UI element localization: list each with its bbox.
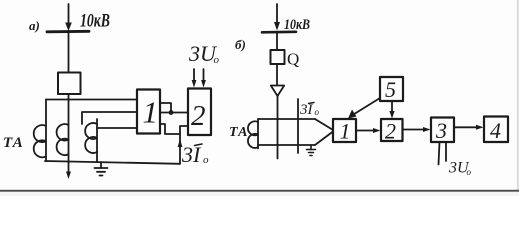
wire box1 to box2 a	[160, 112, 188, 114]
arrowhead feeder a	[65, 23, 72, 32]
svg-text:o: o	[203, 154, 209, 166]
svg-text:10кВ: 10кВ	[80, 11, 110, 32]
cone top edge to box1 b	[315, 119, 333, 130]
svg-text:Q: Q	[287, 50, 299, 69]
cone bottom edge to box1 b	[315, 132, 333, 146]
arrowhead box5 to box1	[348, 110, 357, 119]
svg-text:o: o	[315, 107, 320, 117]
circuit breaker box a	[58, 73, 81, 95]
svg-text:5: 5	[385, 77, 396, 102]
CT C winding arcs	[85, 123, 97, 153]
wire W3 to box1	[97, 127, 137, 129]
ground a stem	[100, 162, 102, 168]
svg-text:1: 1	[143, 95, 159, 130]
svg-text:o: o	[214, 54, 220, 66]
3U0 drop line 2 b	[445, 142, 447, 161]
3U0 arrow 2 shaft a	[203, 69, 205, 81]
arrowhead box1 to box2 b	[373, 128, 381, 133]
up arrowhead 3I0 a	[178, 139, 183, 147]
scan edge right	[517, 0, 518, 191]
wire box3 to box4	[454, 126, 477, 128]
stub box1 out bottom a	[160, 124, 180, 134]
busbar b	[262, 30, 296, 33]
ground a bar3	[100, 175, 103, 177]
wire busbar to breaker a	[68, 31, 70, 73]
CT b frame top	[258, 118, 315, 120]
box 4	[484, 117, 508, 143]
secondary bottom bus a	[45, 161, 180, 164]
scan border line bottom	[0, 190, 519, 192]
box 2 a	[188, 89, 211, 136]
ground b stem	[310, 145, 312, 150]
stub box1 out top a	[160, 103, 171, 113]
macron over I b	[309, 103, 315, 104]
svg-text:3I: 3I	[299, 102, 314, 118]
breaker box Q	[271, 50, 285, 64]
wire box1 to box2 b	[356, 130, 374, 132]
scan margin below border	[0, 192, 519, 196]
svg-text:1: 1	[340, 119, 351, 144]
CT b winding arcs	[248, 121, 258, 148]
svg-text:2: 2	[385, 119, 396, 144]
box 1 a	[137, 90, 160, 134]
arrowhead box2 to box3	[423, 127, 431, 132]
box 1 b	[333, 119, 356, 142]
svg-text:ТА: ТА	[3, 135, 24, 151]
svg-text:3I: 3I	[181, 142, 202, 167]
wire box2 to box3	[403, 129, 425, 131]
busbar a	[47, 30, 89, 33]
svg-text:4: 4	[490, 118, 501, 143]
diagonal wire box5 to box1	[351, 98, 380, 116]
macron over I a	[195, 144, 203, 146]
junction dot a	[169, 110, 174, 115]
CT B winding arcs on feeder	[57, 124, 69, 155]
sheath earthing wire	[297, 99, 299, 153]
arrowhead feeder b	[274, 22, 280, 31]
3U0 arrow 1 head a	[192, 80, 197, 88]
load arrow at feeder end a	[66, 172, 71, 180]
cable termination triangle	[271, 86, 284, 97]
3U0 drop line 1 b	[439, 142, 440, 165]
wire busbar to Q	[276, 32, 278, 50]
CT A secondary vertical	[45, 100, 47, 162]
wire incoming feeder b	[276, 4, 278, 23]
arrowhead box3 to box4	[476, 125, 484, 130]
svg-text:3: 3	[435, 118, 447, 143]
ground b bar3	[310, 155, 312, 157]
wire W1 CT A to box1	[46, 99, 137, 101]
box 2 b	[381, 119, 403, 141]
CT b frame bottom	[258, 144, 315, 146]
ground b bar1	[307, 149, 316, 151]
feeder below breaker a	[68, 94, 70, 172]
svg-text:ТА: ТА	[229, 125, 249, 140]
ground a bar1	[95, 167, 108, 169]
svg-text:10кВ: 10кВ	[284, 17, 310, 33]
box 5	[380, 77, 403, 101]
wire Q to cable head	[276, 64, 278, 86]
CT C secondary vertical	[96, 119, 98, 161]
cable below termination	[277, 96, 279, 159]
wire incoming feeder a	[68, 4, 70, 24]
svg-text:б): б)	[235, 37, 246, 52]
3U0 arrow 1 shaft a	[193, 69, 195, 81]
ground a bar2	[97, 171, 105, 173]
ground b bar2	[309, 152, 314, 154]
riser 3I0 a	[180, 126, 188, 164]
3U0 arrow 2 head a	[201, 80, 206, 88]
arrowhead box5 to box2	[389, 111, 394, 119]
wire box5 to box2	[391, 101, 393, 112]
svg-text:а): а)	[29, 18, 40, 33]
wire W2 to box1	[82, 112, 137, 124]
box 3	[431, 118, 454, 143]
svg-text:2: 2	[191, 100, 206, 132]
CT A winding arcs	[34, 125, 46, 157]
CT b winding vertical	[257, 119, 259, 149]
svg-text:o: o	[467, 167, 472, 177]
